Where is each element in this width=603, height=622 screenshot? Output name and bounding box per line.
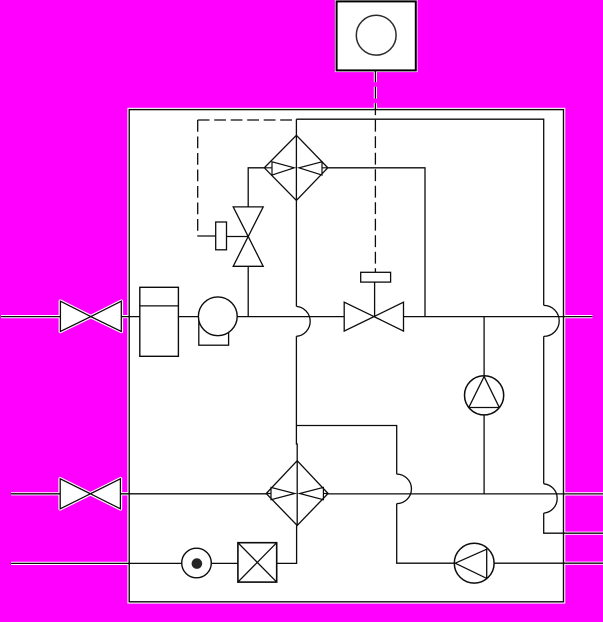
halo: valve V4 bbox=[60, 479, 120, 509]
pipe HX1 top to top rail bbox=[295, 119, 297, 135]
sensor TS1 circle bbox=[356, 15, 396, 55]
controller dashed boundary left bbox=[197, 120, 199, 236]
HX2 inner left triangle bbox=[271, 487, 295, 499]
flow meter M1 circle bbox=[198, 297, 237, 336]
pump P3 triangle bbox=[455, 549, 487, 578]
pipe HX1 bottom drop bbox=[295, 200, 297, 306]
mixing box B1 diagonals bbox=[238, 543, 277, 582]
HX1 vertical pipe through bbox=[295, 135, 297, 200]
controller dashed boundary top bbox=[198, 119, 293, 121]
wire V3 up to HX1 bbox=[248, 168, 264, 207]
actuator A3 rect bbox=[216, 222, 227, 250]
supply pipe segment to control valve bbox=[237, 316, 344, 318]
HX2 inner right triangle bbox=[300, 487, 324, 499]
hop over supply pipe bbox=[296, 306, 310, 336]
return pipe segment left bbox=[11, 493, 60, 495]
temperature sensor TS2 circle bbox=[182, 548, 212, 578]
return pipe segment to right exit bbox=[328, 493, 603, 495]
return pipe segment to HX2 bbox=[120, 493, 266, 495]
V2 stem bbox=[374, 282, 376, 317]
supply pipe segment to right exit bbox=[404, 316, 593, 318]
halo: V4 to unit stub bbox=[120, 492, 129, 495]
bottom pipe right exit bbox=[494, 562, 603, 564]
halo: V1 to unit stub bbox=[121, 315, 129, 318]
bottom pipe segment left bbox=[11, 562, 182, 564]
flow meter M1 body rect bbox=[199, 318, 229, 345]
valve V4 bbox=[60, 479, 120, 509]
V2 actuator rect bbox=[361, 272, 391, 282]
HX2 inner stubs bbox=[266, 493, 328, 495]
halo: sensor box bbox=[337, 1, 416, 70]
HX1 inner stubs bbox=[264, 167, 328, 169]
heat exchanger HX2 diamond bbox=[266, 461, 328, 526]
bypass down to bottom pipe bbox=[397, 504, 455, 564]
wire controller to actuator A3 bbox=[197, 235, 215, 237]
right rail hop over return pipe bbox=[544, 484, 557, 513]
filter F1 divider bbox=[140, 305, 179, 307]
right rail hop over supply pipe bbox=[544, 305, 560, 336]
halo: valve V1 bbox=[60, 301, 121, 331]
pump P2 triangle bbox=[469, 377, 500, 408]
valve V3 (motorized, vertical) bbox=[233, 207, 263, 266]
halo: right exit stubs bbox=[563, 315, 592, 318]
bypass hop over return pipe bbox=[397, 474, 412, 504]
valve V1 bbox=[60, 301, 121, 331]
unit enclosure halo bbox=[129, 110, 563, 602]
wire actuator A3 to valve V3 bbox=[227, 236, 249, 238]
halo: return pipe stub left bbox=[11, 492, 60, 495]
halo: dashed sensor line stub bbox=[374, 70, 377, 110]
bottom pipe segment to X-box bbox=[211, 562, 238, 564]
wire V3 down to supply pipe bbox=[247, 266, 249, 316]
supply pipe segment left bbox=[1, 316, 60, 318]
wire HX1 right to drop bbox=[328, 168, 425, 317]
right rail to exit bbox=[544, 513, 603, 533]
bottom pipe to HX2 bottom bbox=[277, 525, 297, 563]
pump P3 circle bbox=[454, 543, 494, 583]
TS2 dot bbox=[192, 558, 203, 569]
pump P2 circle bbox=[465, 376, 504, 415]
sensor TS1 box bbox=[337, 1, 416, 70]
supply pipe segment to filter bbox=[121, 316, 140, 318]
control valve V2 bbox=[344, 302, 403, 331]
HX1 inner right triangle bbox=[299, 162, 322, 175]
pump P2 branch to return pipe bbox=[483, 415, 485, 494]
HX2 vertical pipe through bbox=[296, 461, 298, 526]
pump P2 branch from supply pipe bbox=[483, 317, 485, 376]
filter F1 box bbox=[140, 287, 179, 356]
dashed control line from TS1 to valve V2 actuator bbox=[374, 70, 376, 273]
right rail down bbox=[543, 336, 545, 483]
top rail pipe bbox=[296, 119, 543, 305]
heat exchanger HX1 diamond bbox=[264, 135, 328, 200]
halo: supply pipe stub left bbox=[1, 315, 60, 318]
HX1 inner left triangle bbox=[272, 162, 294, 175]
halo: bottom pipe stub left bbox=[11, 562, 129, 565]
pipe down to HX2 top bbox=[295, 336, 298, 460]
unit enclosure border bbox=[129, 110, 563, 602]
branch pipe to bypass drop bbox=[296, 426, 396, 475]
mixing box B1 bbox=[238, 543, 277, 582]
supply pipe segment to meter bbox=[178, 316, 198, 318]
